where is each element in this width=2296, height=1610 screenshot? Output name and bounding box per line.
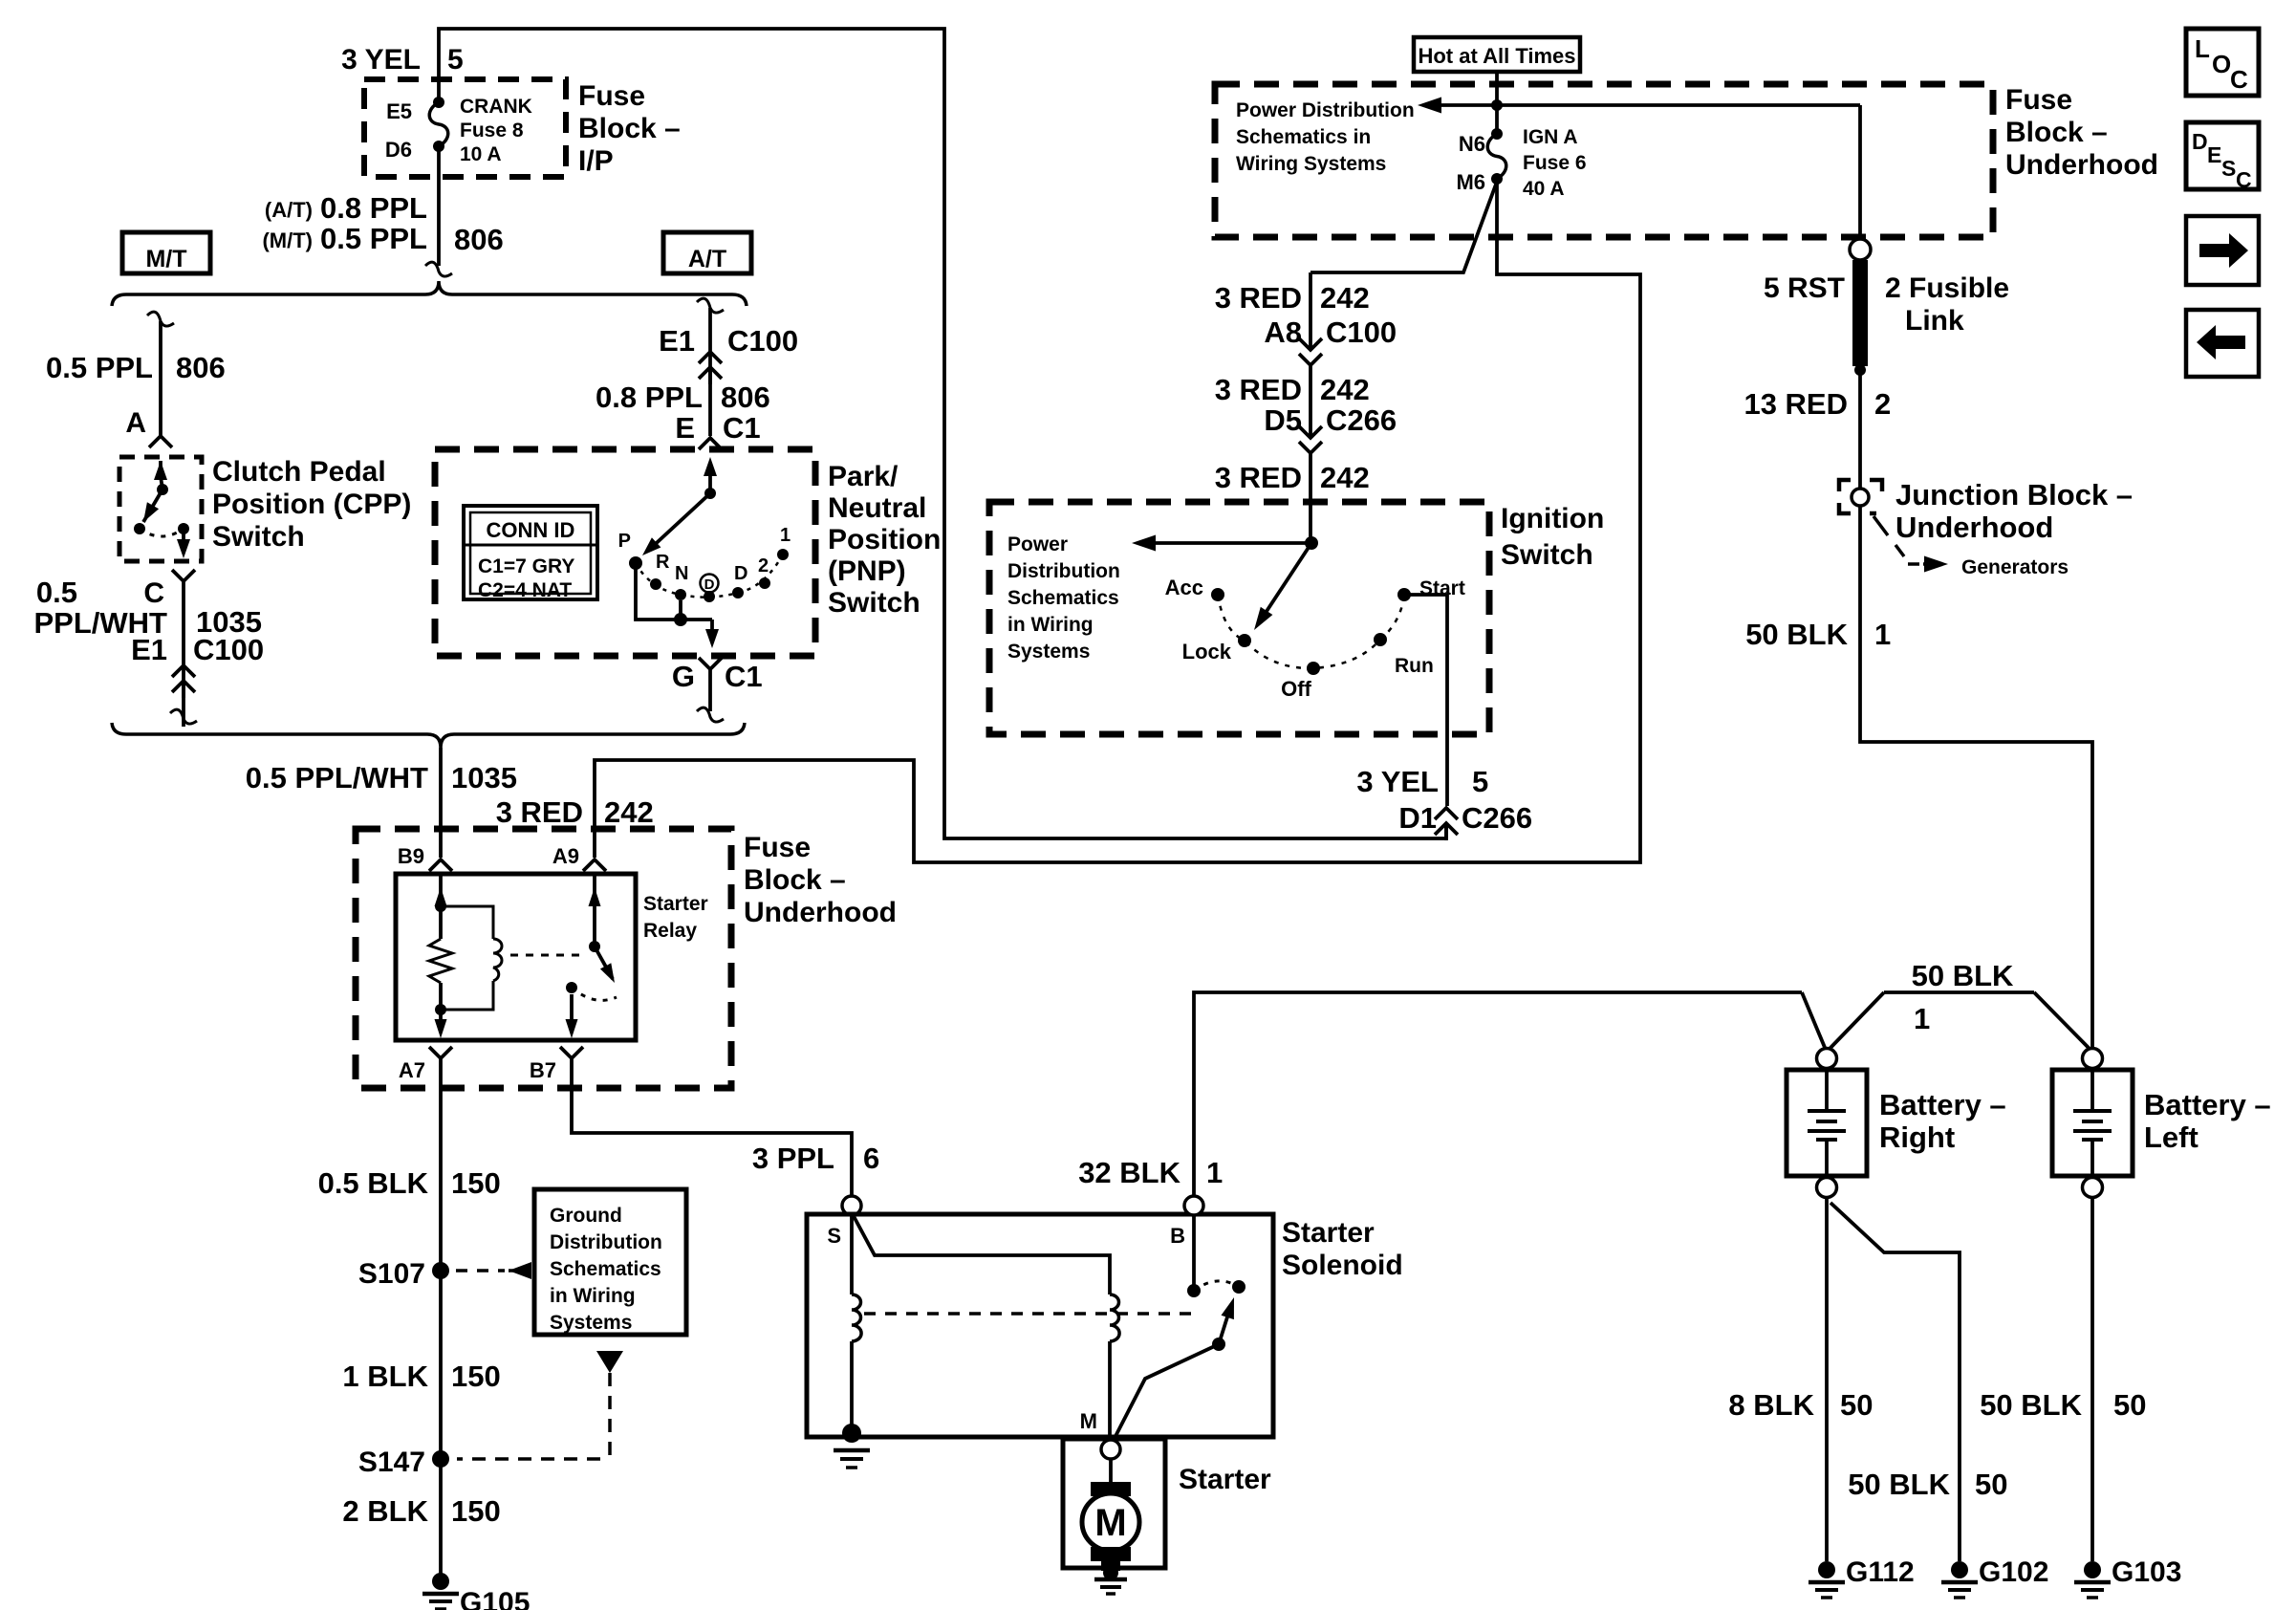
svg-text:2 BLK: 2 BLK [342, 1494, 428, 1528]
svg-text:A8: A8 [1264, 315, 1302, 349]
svg-text:C100: C100 [193, 633, 264, 666]
svg-text:Underhood: Underhood [1895, 511, 2053, 544]
svg-text:N6: N6 [1459, 132, 1485, 156]
svg-text:A9: A9 [552, 844, 579, 868]
nav box arrow left [2186, 310, 2259, 377]
solenoid hold-in coil branch [854, 1216, 1119, 1442]
svg-text:I/P: I/P [578, 145, 614, 177]
connector C266 D1 (double chevron on start wire) [1435, 808, 1458, 840]
svg-text:Run: Run [1395, 655, 1434, 677]
wire 3 RED 242 to ignition switch (via C100/C266) [1310, 182, 1497, 335]
svg-text:Fuse: Fuse [2005, 84, 2072, 116]
terminal G C1 of PNP switch [672, 658, 763, 722]
wire 8 BLK 50 to G112 [1825, 1198, 1829, 1561]
pin N6 [1459, 132, 1485, 156]
label Starter Solenoid [1282, 1217, 1403, 1281]
label Starter [1179, 1464, 1271, 1495]
fuse F6 IGN A 40A [1487, 128, 1506, 185]
svg-text:Distribution: Distribution [1007, 560, 1120, 582]
alternative tag M/T [122, 232, 210, 273]
ignition contact Acc [1165, 576, 1224, 601]
label 50 BLK 1 [1745, 618, 1891, 651]
svg-text:M: M [1094, 1502, 1126, 1544]
PNP contact arc (dashed) [636, 555, 783, 598]
svg-text:Fuse: Fuse [578, 80, 645, 112]
svg-text:S147: S147 [358, 1447, 425, 1478]
wire 50 BLK 50 to G103 [2090, 1198, 2094, 1561]
svg-text:150: 150 [451, 1494, 501, 1528]
wire 3 RED 242 from IGN A fuse to relay A9 (long loop) [595, 182, 1640, 862]
svg-text:in Wiring: in Wiring [1007, 614, 1094, 636]
svg-text:0.8 PPL: 0.8 PPL [320, 191, 427, 225]
ignition contact Start [1397, 577, 1465, 601]
wire segment into ignition switch [1309, 453, 1312, 543]
svg-text:Power: Power [1007, 533, 1068, 555]
svg-text:C2=4 NAT: C2=4 NAT [478, 579, 572, 601]
solenoid actuator dashed line [864, 1312, 1193, 1316]
connector E1 C100 (CPP output) [131, 633, 264, 698]
svg-text:B: B [1170, 1224, 1185, 1248]
splice S107 [358, 1258, 449, 1290]
svg-text:C1: C1 [725, 660, 763, 693]
PNP output wiring P-N junction to G [636, 563, 719, 648]
svg-text:0.5 PPL: 0.5 PPL [320, 222, 427, 255]
terminal B9 [398, 844, 452, 871]
svg-text:E1: E1 [131, 633, 167, 666]
solenoid pin M [1080, 1409, 1097, 1433]
PNP entry arrow and node [704, 457, 717, 499]
svg-text:Fuse: Fuse [744, 832, 811, 863]
svg-text:G103: G103 [2112, 1556, 2181, 1588]
svg-text:32 BLK: 32 BLK [1078, 1156, 1180, 1189]
clutch pedal position switch dashed box [119, 457, 202, 561]
brace splitting 806 into M/T and A/T branches [112, 281, 747, 306]
nav box DESC [2186, 122, 2259, 192]
fuse block I/P dashed box [364, 79, 566, 177]
svg-text:D1: D1 [1398, 801, 1437, 835]
PNP contact 1 [777, 525, 791, 560]
label 3 RED 242 (second) [1215, 373, 1370, 406]
battery right terminal ring [1817, 1049, 1837, 1069]
label 50 BLK 50 (middle) [1848, 1468, 2007, 1501]
relay coil (inductor) [441, 906, 502, 1010]
svg-text:806: 806 [454, 223, 504, 256]
connector D5 C266 [1264, 403, 1397, 453]
relay switch A9-B7 [566, 874, 617, 1038]
svg-text:S: S [2221, 156, 2236, 181]
svg-text:D: D [734, 563, 747, 584]
svg-text:O: O [2212, 50, 2231, 78]
starter motor ground [1094, 1565, 1127, 1594]
svg-text:50 BLK: 50 BLK [1912, 959, 2014, 992]
svg-text:Systems: Systems [1007, 641, 1090, 663]
ground distribution schematics box [534, 1189, 686, 1335]
svg-text:1: 1 [1874, 618, 1891, 651]
svg-text:Starter: Starter [1282, 1217, 1375, 1249]
svg-text:Relay: Relay [643, 920, 697, 942]
label D1 C266 [1398, 801, 1532, 835]
svg-text:(PNP): (PNP) [828, 555, 906, 587]
svg-text:Ignition: Ignition [1501, 503, 1604, 534]
label Battery - Right [1879, 1088, 2006, 1154]
solenoid case ground [834, 1450, 870, 1468]
wire 3 YEL 5 top run from CRANK fuse to ignition-start loop [439, 29, 1446, 838]
svg-text:Left: Left [2144, 1120, 2199, 1154]
svg-text:2: 2 [758, 555, 769, 577]
svg-text:C266: C266 [1326, 403, 1397, 437]
starter relay box [396, 874, 636, 1040]
svg-text:Neutral: Neutral [828, 492, 926, 524]
svg-text:A: A [125, 407, 146, 439]
PNP contact N [675, 563, 688, 600]
svg-text:1: 1 [1206, 1156, 1223, 1189]
terminal B7 [530, 1047, 583, 1082]
svg-text:3 RED: 3 RED [496, 795, 583, 829]
svg-text:Lock: Lock [1182, 640, 1232, 664]
starter solenoid box [807, 1214, 1273, 1437]
label 0.5 BLK 150 [318, 1166, 501, 1200]
svg-text:242: 242 [1320, 461, 1370, 494]
svg-text:242: 242 [604, 795, 654, 829]
svg-text:0.8 PPL: 0.8 PPL [596, 381, 703, 414]
svg-text:Block –: Block – [2005, 117, 2108, 148]
label 3 YEL 5 (start output) [1356, 765, 1488, 798]
svg-text:0.5 PPL: 0.5 PPL [46, 351, 153, 384]
svg-text:40 A: 40 A [1523, 178, 1565, 200]
svg-text:2 Fusible: 2 Fusible [1885, 272, 2009, 304]
battery left terminal ring [2083, 1049, 2103, 1069]
svg-text:50 BLK: 50 BLK [1980, 1388, 2082, 1422]
ignition switch dashed box [989, 502, 1489, 734]
label 5 RST [1764, 272, 1845, 304]
solenoid pin S [827, 1224, 841, 1248]
svg-text:D5: D5 [1264, 403, 1302, 437]
svg-text:2: 2 [1874, 387, 1891, 421]
svg-text:M: M [1080, 1409, 1097, 1433]
label Fuse Block - Underhood (top) [2005, 84, 2158, 181]
svg-text:B7: B7 [530, 1058, 556, 1082]
svg-text:D6: D6 [385, 138, 412, 162]
wire 50 BLK 50 to G102 [1830, 1203, 1960, 1561]
label 2 BLK 150 [342, 1494, 500, 1528]
tag Hot at All Times [1414, 37, 1580, 72]
wire 32 BLK 1 from battery to solenoid B [1194, 992, 1802, 1196]
svg-text:G112: G112 [1846, 1556, 1915, 1588]
svg-text:C1=7 GRY: C1=7 GRY [478, 555, 574, 577]
PNP contact 2 [758, 555, 770, 589]
svg-text:M6: M6 [1456, 170, 1485, 194]
svg-text:L: L [2195, 34, 2210, 63]
label 3 PPL 6 [752, 1142, 879, 1175]
wire 50 BLK 1 from junction block to battery left [1860, 506, 2092, 1048]
svg-text:5 RST: 5 RST [1764, 272, 1845, 304]
svg-text:E5: E5 [386, 99, 412, 123]
svg-text:Park/: Park/ [828, 461, 899, 492]
svg-text:C: C [2236, 167, 2252, 192]
battery right bottom ring [1817, 1178, 1837, 1198]
svg-text:D: D [2192, 129, 2208, 154]
ground G102 [1941, 1556, 2048, 1598]
label Junction Block - Underhood [1895, 478, 2133, 544]
label Clutch Pedal Position (CPP) Switch [212, 456, 411, 553]
svg-text:Switch: Switch [828, 587, 921, 619]
pin E5 [386, 99, 412, 123]
svg-text:3 RED: 3 RED [1215, 461, 1302, 494]
svg-text:Starter: Starter [643, 893, 708, 915]
svg-text:1 BLK: 1 BLK [342, 1360, 428, 1393]
power distribution reference (ignition) [1007, 533, 1120, 663]
ignition contact Lock [1182, 634, 1251, 664]
svg-text:5: 5 [447, 44, 464, 76]
svg-text:S107: S107 [358, 1258, 425, 1290]
svg-text:3 RED: 3 RED [1215, 281, 1302, 315]
CONN ID table [464, 506, 597, 601]
svg-text:E1: E1 [659, 324, 695, 358]
svg-text:in Wiring: in Wiring [550, 1285, 636, 1307]
ground G105 [422, 1573, 530, 1610]
label Fuse Block - Underhood (relay) [744, 832, 897, 928]
svg-text:E: E [2207, 142, 2221, 167]
svg-text:Fuse 8: Fuse 8 [460, 120, 524, 141]
svg-text:S: S [827, 1224, 841, 1248]
svg-text:G102: G102 [1979, 1556, 2048, 1588]
junction block underhood (corner marks) [1839, 480, 1882, 513]
wire 0.5 PPL 806 (M/T branch) [147, 312, 174, 436]
hook to lower brace (CPP side) [170, 709, 197, 724]
ground G112 [1809, 1556, 1915, 1598]
relay coil branch B9-A7 [429, 874, 452, 1038]
svg-text:242: 242 [1320, 281, 1370, 315]
label 0.5 PPL/WHT 1035 [246, 761, 517, 794]
svg-text:Battery –: Battery – [2144, 1088, 2271, 1121]
svg-text:Fuse 6: Fuse 6 [1523, 152, 1587, 174]
power distribution reference (top) [1236, 99, 1415, 175]
S147 reference dashed line [457, 1351, 623, 1459]
svg-text:0.5 PPL/WHT: 0.5 PPL/WHT [246, 761, 428, 794]
wire 0.5 BLK 150 from A7 to G105 [439, 1058, 443, 1579]
svg-text:Link: Link [1905, 305, 1964, 337]
svg-text:0.5 BLK: 0.5 BLK [318, 1166, 429, 1200]
solenoid terminal B ring [1184, 1196, 1203, 1215]
svg-text:1: 1 [780, 525, 791, 546]
svg-text:C100: C100 [727, 324, 798, 358]
svg-text:Schematics: Schematics [550, 1258, 661, 1280]
svg-text:Ground: Ground [550, 1205, 622, 1227]
svg-text:G: G [672, 660, 695, 693]
wire start output 3 YEL 5 [1404, 595, 1447, 806]
svg-text:806: 806 [721, 381, 770, 414]
svg-text:5: 5 [1472, 765, 1488, 798]
svg-text:1035: 1035 [451, 761, 517, 794]
svg-text:B9: B9 [398, 844, 424, 868]
svg-text:C: C [2230, 65, 2248, 94]
fuse block underhood dashed box (top right) [1215, 84, 1993, 237]
PNP contact D2 [732, 563, 747, 598]
solenoid contact switch [1112, 1214, 1245, 1444]
svg-text:Junction Block –: Junction Block – [1895, 478, 2133, 511]
label 50 BLK 50 (right) [1980, 1388, 2146, 1422]
svg-text:Power Distribution: Power Distribution [1236, 99, 1415, 121]
PNP contact D (circled) [701, 575, 719, 603]
label (M/T) 0.5 PPL 806 [262, 222, 503, 256]
wire segment [1309, 365, 1312, 423]
svg-text:150: 150 [451, 1166, 501, 1200]
fuse F8 CRANK Fuse 8 10A [429, 97, 448, 152]
svg-text:50: 50 [1975, 1468, 2007, 1501]
svg-text:(A/T): (A/T) [265, 198, 313, 222]
svg-text:Block –: Block – [744, 864, 846, 896]
svg-text:Starter: Starter [1179, 1464, 1271, 1495]
label Battery - Left [2144, 1088, 2271, 1154]
svg-text:50: 50 [2113, 1388, 2146, 1422]
label 1 BLK 150 [342, 1360, 500, 1393]
svg-text:C266: C266 [1462, 801, 1532, 835]
starter motor [1082, 1459, 1139, 1571]
svg-text:C100: C100 [1326, 315, 1397, 349]
terminal A9 [552, 844, 606, 871]
label 0.8 PPL 806 [596, 381, 770, 414]
solenoid terminal M ring [1101, 1440, 1120, 1459]
S107 reference dashed arrow [456, 1262, 531, 1279]
svg-text:IGN A: IGN A [1523, 126, 1578, 148]
svg-text:A/T: A/T [688, 246, 726, 272]
svg-text:Generators: Generators [1961, 556, 2069, 578]
svg-text:Clutch Pedal: Clutch Pedal [212, 456, 386, 488]
nav box arrow right [2186, 216, 2259, 285]
svg-text:CONN ID: CONN ID [487, 518, 575, 542]
terminal A7 [399, 1047, 452, 1082]
svg-text:CRANK: CRANK [460, 96, 532, 118]
svg-text:6: 6 [863, 1142, 879, 1175]
label 3 RED 242 (third) [1215, 461, 1370, 494]
label CRANK Fuse 8 10 A [460, 96, 532, 165]
solenoid pull-in coil branch [842, 1215, 861, 1443]
fusible link terminal ring [1850, 239, 1871, 260]
label 8 BLK 50 [1728, 1388, 1873, 1422]
label 2 Fusible Link [1885, 272, 2009, 337]
solenoid pin B [1170, 1224, 1185, 1248]
pin M6 [1456, 170, 1485, 194]
connector A8 C100 [1264, 315, 1397, 365]
svg-text:G105: G105 [460, 1587, 530, 1610]
nav box LOC [2186, 29, 2259, 96]
svg-text:Systems: Systems [550, 1312, 632, 1334]
svg-text:150: 150 [451, 1360, 501, 1393]
label Park/Neutral Position (PNP) Switch [828, 461, 941, 619]
label IGN A Fuse 6 40 A [1523, 126, 1587, 200]
PNP contact R [650, 552, 670, 590]
svg-text:Switch: Switch [1501, 539, 1593, 571]
svg-text:3 PPL: 3 PPL [752, 1142, 834, 1175]
svg-text:50: 50 [1840, 1388, 1873, 1422]
splice S147 [358, 1447, 449, 1478]
svg-text:50 BLK: 50 BLK [1848, 1468, 1950, 1501]
label (A/T) 0.8 PPL [265, 191, 427, 225]
fusible link [1852, 260, 1868, 376]
svg-text:3 RED: 3 RED [1215, 373, 1302, 406]
wire 13 RED 2 [1858, 370, 1862, 490]
wire 3 PPL 6 from relay B7 to solenoid S [572, 1058, 852, 1196]
svg-text:Block –: Block – [578, 113, 681, 144]
svg-text:A7: A7 [399, 1058, 425, 1082]
svg-text:806: 806 [176, 351, 226, 384]
svg-text:Right: Right [1879, 1120, 1955, 1154]
svg-text:Acc: Acc [1165, 576, 1203, 599]
battery left bottom ring [2083, 1178, 2103, 1198]
svg-text:1: 1 [1914, 1002, 1930, 1035]
svg-text:Hot at All Times: Hot at All Times [1418, 44, 1575, 68]
wire 0.5 PPL/WHT 1035 to starter relay B9 [439, 748, 443, 858]
label 3 RED 242 (at relay A9) [496, 795, 654, 829]
wire 806 from fuse D6 to M/T-A/T brace [425, 146, 452, 276]
svg-text:3 YEL: 3 YEL [1356, 765, 1439, 798]
ground G103 [2074, 1556, 2181, 1598]
label 0.5 PPL 806 [46, 351, 226, 384]
svg-text:13 RED: 13 RED [1744, 387, 1848, 421]
label Starter Relay [643, 893, 708, 942]
label 0.5 PPL/WHT 1035 (CPP output) [34, 576, 262, 640]
svg-text:C: C [143, 577, 164, 609]
svg-text:Solenoid: Solenoid [1282, 1250, 1403, 1281]
label Ignition Switch [1501, 503, 1604, 571]
svg-text:8 BLK: 8 BLK [1728, 1388, 1814, 1422]
svg-text:(M/T): (M/T) [262, 228, 313, 252]
svg-text:Underhood: Underhood [2005, 149, 2158, 181]
ignition contact arc (dashed) [1218, 595, 1404, 668]
pin D6 [385, 138, 412, 162]
battery right [1787, 1070, 1867, 1176]
svg-text:Distribution: Distribution [550, 1231, 662, 1253]
svg-text:M/T: M/T [145, 246, 186, 272]
svg-text:D: D [704, 577, 715, 593]
label 32 BLK 1 [1078, 1156, 1223, 1189]
terminal A of CPP switch [125, 407, 172, 447]
label 3 YEL 5 (top) [341, 44, 464, 76]
svg-text:0.5: 0.5 [36, 576, 77, 609]
svg-text:R: R [656, 552, 670, 573]
svg-text:N: N [675, 563, 688, 584]
alternative tag A/T [663, 232, 751, 273]
CPP switch contacts and blade [134, 461, 190, 558]
svg-text:C1: C1 [723, 411, 761, 445]
brace joining M/T and A/T branches to 1035 wire [112, 723, 745, 748]
park/neutral position switch dashed box [435, 449, 815, 656]
label 50 BLK 1 (bridge) [1912, 959, 2014, 1035]
svg-text:Off: Off [1281, 677, 1311, 701]
solenoid terminal S ring [842, 1196, 861, 1215]
ignition contact Run [1374, 633, 1434, 677]
label 3 RED 242 (first) [1215, 281, 1370, 315]
svg-text:3 YEL: 3 YEL [341, 44, 421, 76]
svg-text:Switch: Switch [212, 521, 305, 553]
svg-text:E: E [675, 411, 695, 445]
wire 50 BLK 1 battery bridge [1802, 992, 2090, 1050]
svg-text:Wiring Systems: Wiring Systems [1236, 153, 1386, 175]
svg-text:P: P [618, 531, 631, 552]
svg-text:Position: Position [828, 524, 941, 555]
svg-text:Schematics: Schematics [1007, 587, 1119, 609]
svg-text:242: 242 [1320, 373, 1370, 406]
svg-text:Battery –: Battery – [1879, 1088, 2006, 1121]
fuse block underhood dashed box (starter relay) [356, 829, 731, 1088]
terminal E C1 of PNP switch [675, 411, 760, 449]
svg-text:Underhood: Underhood [744, 897, 897, 928]
ignition key blade [1254, 543, 1311, 630]
wire hot feed with reference arrow [1418, 72, 1860, 240]
svg-text:50 BLK: 50 BLK [1745, 618, 1848, 651]
svg-text:Position (CPP): Position (CPP) [212, 489, 411, 520]
generators reference [1874, 516, 2069, 578]
